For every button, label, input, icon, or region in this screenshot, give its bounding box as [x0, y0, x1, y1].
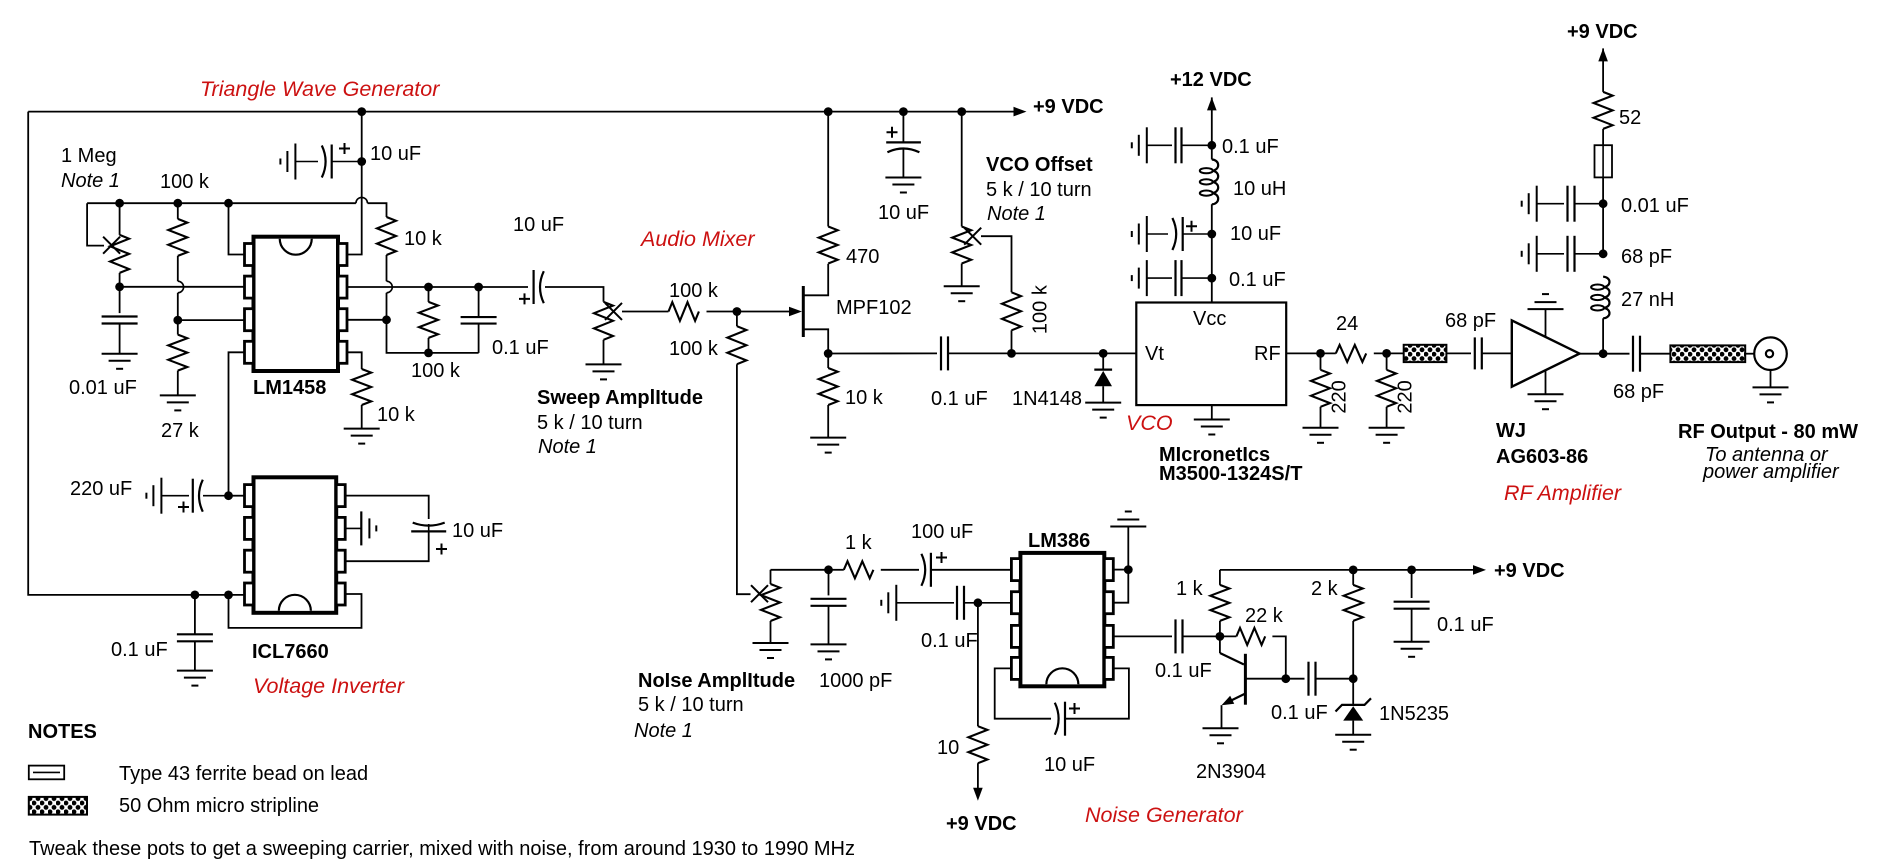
svg-text:0.01 uF: 0.01 uF — [69, 377, 137, 399]
ground below 1N4148 — [1085, 403, 1121, 418]
wire 100 k top lead — [177, 203, 179, 219]
capacitor 0.1 uF (audio coupling) — [941, 336, 948, 370]
capacitor 0.1 uF (noise input) — [881, 585, 896, 621]
potentiometer 1 Meg — [110, 235, 129, 273]
capacitor 0.1 uF (LM386 out) — [1176, 619, 1183, 653]
svg-text:Vt: Vt — [1145, 343, 1164, 365]
wire noise pot to 1k rail — [771, 569, 829, 571]
wire offset wiper — [981, 236, 1012, 292]
capacitor 0.01 uF — [102, 317, 138, 324]
wire lower 10k to ground — [361, 405, 363, 429]
svg-text:22 k: 22 k — [1245, 605, 1284, 627]
capacitor 10 uF (LM1458 V+ bypass) — [280, 144, 295, 180]
wire 0.01 uF top lead — [119, 287, 121, 313]
wire noise pot top — [770, 570, 772, 584]
wire coupling cap to Vt — [948, 352, 1136, 354]
wire 10 k lead below hop — [386, 293, 388, 320]
wire 27nH to output node — [1602, 318, 1604, 353]
resistor 10 k (to ground) — [352, 369, 371, 405]
wire rail to offset pot — [961, 112, 963, 227]
plus sign VCO 10uF — [1186, 221, 1197, 232]
wire ICL 0.1uF bottom — [194, 641, 196, 670]
inductor 27 nH — [1603, 277, 1609, 319]
capacitor 1000 pF — [811, 599, 847, 606]
wire sweep wiper to 100k — [622, 311, 669, 313]
wire ICL loop bottom — [345, 531, 429, 561]
wire 100 k lead below hop — [177, 293, 179, 320]
wire to LM1458 pin 1 — [229, 203, 245, 254]
plus sign sweep cap — [519, 293, 530, 304]
potentiometer VCO Offset 5k — [952, 227, 971, 264]
resistor 2 k — [1344, 585, 1363, 621]
capacitor 0.1 uF (ICL7660) — [177, 634, 213, 641]
svg-text:220 uF: 220 uF — [70, 478, 132, 500]
audio amp LM386 (DIP-8) — [1011, 553, 1113, 686]
svg-text:MPF102: MPF102 — [836, 297, 912, 319]
capacitor 220 uF — [146, 478, 161, 514]
diode 1N4148 — [1094, 369, 1112, 371]
resistor 100 k (noise mix, vertical) — [727, 326, 746, 364]
ground below ICL 0.1uF — [177, 671, 213, 686]
wire pin R3 to 10 k node — [347, 319, 387, 321]
node 1k/1000pF — [824, 565, 833, 574]
wire 22k to base node — [1272, 636, 1285, 678]
ground below sweep pot — [586, 364, 622, 379]
wire 1000pF top lead — [828, 570, 830, 596]
wire 100 k bottom lead with hop — [177, 256, 179, 281]
node attenuator 2 — [1382, 349, 1391, 358]
wire +9V top rail — [28, 111, 1014, 113]
svg-text:100 k: 100 k — [160, 171, 210, 193]
node 100 k parallel top — [424, 283, 433, 292]
transistor 2N3904 — [1244, 654, 1247, 705]
svg-text:100 k: 100 k — [669, 280, 719, 302]
arrowhead +9 VDC bottom — [973, 788, 983, 801]
wire stripline to 68pF — [1446, 352, 1471, 354]
wire 220-1 leads — [1320, 353, 1322, 369]
wire gate node to 100k v — [736, 312, 738, 327]
transistor MPF102 gate bar — [802, 286, 805, 337]
node 100 k parallel bottom — [424, 349, 433, 358]
arrowhead +9 VDC top rail — [1014, 107, 1027, 117]
resistor 22 k — [1236, 628, 1265, 645]
capacitor 100 uF — [921, 554, 925, 586]
echo plates ICL 10uF minus — [360, 511, 362, 545]
wire offset pot bottom — [961, 264, 963, 287]
wiper X of offset pot — [964, 228, 981, 245]
wire 2k bottom — [1352, 621, 1354, 679]
node V+ feed on top rail — [357, 107, 366, 116]
node offset pot feed on top rail — [957, 107, 966, 116]
wire noise bypass top — [1411, 570, 1413, 598]
svg-text:0.1 uF: 0.1 uF — [921, 630, 978, 652]
node 0.1uF bypass top — [1407, 566, 1416, 575]
node 0.1 uF parallel top — [474, 283, 483, 292]
svg-text:AG603-86: AG603-86 — [1496, 446, 1588, 468]
wire sweep cap to pot — [545, 287, 604, 302]
svg-text:Triangle Wave Generator: Triangle Wave Generator — [200, 77, 440, 101]
svg-text:220: 220 — [1394, 380, 1416, 413]
svg-text:10 k: 10 k — [404, 228, 443, 250]
wire offset 100k to Vt node — [1011, 330, 1013, 353]
node VCO bypass 1 — [1207, 141, 1216, 150]
plus sign 220 uF — [178, 502, 189, 513]
hop of 100 k lead over inverting wire — [178, 281, 184, 293]
wire zener bottom lead — [1352, 721, 1354, 735]
wire 220-2 leads — [1386, 353, 1388, 369]
resistor 24 (series) — [1336, 345, 1366, 362]
wire wiper loop of 1 Meg pot — [87, 203, 104, 245]
svg-text:27 k: 27 k — [161, 420, 200, 442]
wiper X of sweep pot — [605, 303, 622, 320]
capacitor 0.1 uF (base-zener) — [1309, 662, 1316, 696]
wire rail to 470 — [827, 112, 829, 227]
wire connector ground stub — [1770, 370, 1772, 387]
node 27 k top — [173, 316, 182, 325]
wire 10k node down — [387, 320, 479, 353]
wiper X of noise pot — [751, 585, 768, 602]
svg-text:5 k / 10 turn: 5 k / 10 turn — [638, 694, 744, 716]
wire 10 k lower lead with hop — [386, 255, 388, 281]
node 100 k top — [173, 199, 182, 208]
ground below 0.01 uF — [102, 354, 138, 369]
svg-text:Vcc: Vcc — [1193, 308, 1226, 330]
ground below 27 k — [160, 395, 196, 410]
svg-text:0.1 uF: 0.1 uF — [1271, 702, 1328, 724]
ground below offset pot — [944, 286, 980, 301]
resistor 470 — [819, 227, 838, 264]
svg-text:+9 VDC: +9 VDC — [1033, 96, 1104, 118]
svg-text:100 k: 100 k — [669, 338, 719, 360]
wire source to coupling cap — [828, 352, 937, 354]
arrowhead 2N3904 emitter — [1222, 696, 1235, 705]
wire amp output — [1580, 353, 1630, 355]
svg-text:RF Output - 80 mW: RF Output - 80 mW — [1678, 421, 1858, 443]
ground below offset bypass — [885, 178, 921, 193]
svg-text:100 k: 100 k — [1030, 284, 1052, 334]
ground above amp — [1528, 294, 1564, 309]
wire below 10uH — [1211, 204, 1213, 302]
wire 1k collector bottom — [1219, 621, 1221, 637]
wire VCO ground stub — [1211, 405, 1213, 419]
node VCO bypass 3 — [1207, 274, 1216, 283]
svg-text:1 Meg: 1 Meg — [61, 145, 117, 167]
ground below 220-2 — [1369, 428, 1405, 443]
svg-text:0.1 uF: 0.1 uF — [1155, 660, 1212, 682]
capacitor 10 uF (offset bypass) — [886, 141, 921, 143]
svg-text:Noise Generator: Noise Generator — [1085, 803, 1244, 827]
node 220uF out — [224, 491, 233, 500]
svg-text:1N4148: 1N4148 — [1012, 388, 1082, 410]
svg-text:1 k: 1 k — [845, 532, 873, 554]
wire 1k left lead — [829, 569, 844, 571]
wire LM386 bypass loop — [995, 668, 1051, 718]
wire 100k to gate node — [707, 311, 791, 313]
resistor 220 (shunt 1) — [1311, 370, 1330, 407]
svg-text:68 pF: 68 pF — [1613, 381, 1664, 403]
wire 68pF to amp — [1482, 352, 1512, 354]
svg-text:52: 52 — [1619, 107, 1641, 129]
ground below noise pot — [753, 643, 789, 658]
plus sign of 10 uF — [339, 143, 350, 154]
transistor MPF102 source lead — [803, 329, 828, 353]
svg-text:Note 1: Note 1 — [538, 436, 597, 458]
svg-text:NOTES: NOTES — [28, 721, 97, 743]
svg-text:27 nH: 27 nH — [1621, 289, 1674, 311]
capacitor 10 uF (ICL7660) — [413, 523, 445, 526]
capacitor 0.1 uF (parallel) — [461, 317, 497, 324]
resistor 10 k (MPF102 source) — [819, 368, 838, 405]
node base/22k — [1281, 674, 1290, 683]
wire feedback rail — [87, 202, 356, 204]
svg-text:10: 10 — [937, 737, 959, 759]
svg-text:68 pF: 68 pF — [1445, 310, 1496, 332]
resistor 1 k (collector) — [1210, 585, 1229, 621]
svg-text:power amplifier: power amplifier — [1702, 461, 1840, 483]
capacitor 10 uF (sweep coupling) — [532, 270, 534, 304]
wire collector stub — [1219, 636, 1221, 653]
ground below MPF102 10 k — [810, 438, 846, 453]
svg-text:10 uH: 10 uH — [1233, 178, 1286, 200]
node ICL gnd left — [191, 591, 200, 600]
wire 0.1uF par top lead — [478, 287, 480, 317]
node zener top — [1349, 674, 1358, 683]
wire 27 k bottom lead — [177, 371, 179, 396]
ground below emitter — [1203, 728, 1239, 743]
svg-text:100 uF: 100 uF — [911, 521, 973, 543]
svg-text:VCO: VCO — [1126, 411, 1173, 435]
node RF bypass 2 — [1599, 249, 1608, 258]
wire output cap to stripline — [1640, 353, 1670, 355]
svg-text:NoIse AmplItude: NoIse AmplItude — [638, 670, 795, 692]
wire cap to zener node — [1316, 678, 1354, 680]
ground below lower 10 k — [344, 429, 380, 444]
svg-text:470: 470 — [846, 246, 879, 268]
wire rail to bypass cap — [902, 112, 904, 142]
wire 27 k top lead — [177, 320, 179, 335]
ground below noise bypass — [1394, 642, 1430, 657]
svg-text:Note 1: Note 1 — [634, 720, 693, 742]
ground below VCO — [1194, 420, 1230, 435]
legend stripline symbol — [29, 797, 87, 815]
capacitor 0.1 uF (VCO bypass 2) — [1132, 260, 1147, 296]
svg-text:0.1 uF: 0.1 uF — [1229, 269, 1286, 291]
wire diode bottom lead — [1102, 386, 1104, 402]
wire second rail right of hop — [368, 203, 387, 217]
wire amp top ground stub — [1545, 309, 1547, 337]
wire sweep pot bottom — [603, 340, 605, 365]
node 470 feed on top rail — [824, 107, 833, 116]
resistor 100 k (sweep mix) — [669, 302, 699, 321]
wire diode top lead — [1102, 353, 1104, 369]
svg-text:Note 1: Note 1 — [987, 203, 1046, 225]
wire VCO RF out — [1286, 352, 1336, 354]
capacitor 68 pF (RF bypass) — [1522, 236, 1537, 272]
inductor 10 uH — [1212, 160, 1218, 205]
wire base net — [1245, 678, 1304, 680]
svg-text:ICL7660: ICL7660 — [252, 641, 329, 663]
node 2k top — [1349, 566, 1358, 575]
wire emitter down — [1221, 705, 1223, 728]
RF output connector — [1754, 337, 1787, 370]
capacitor 0.01 uF (RF bypass) — [1522, 186, 1537, 222]
wire noise pot bottom — [770, 621, 772, 643]
wire ICL 0.1uF top — [194, 595, 196, 634]
svg-text:0.01 uF: 0.01 uF — [1621, 195, 1689, 217]
transistor MPF102 drain lead — [803, 264, 828, 296]
node LM386 ground tie — [1124, 565, 1133, 574]
svg-text:24: 24 — [1336, 313, 1358, 335]
wire LM1458 out A — [347, 286, 528, 288]
svg-text:1000 pF: 1000 pF — [819, 670, 892, 692]
capacitor 10 uF (VCO bypass) — [1132, 216, 1147, 252]
node pin R3 / 10 k — [382, 315, 391, 324]
ground above LM386 — [1110, 512, 1146, 527]
ground below zener — [1335, 735, 1371, 750]
ground below connector — [1753, 387, 1789, 402]
potentiometer Sweep Amplitude 5k — [594, 302, 613, 340]
wire noise +9V rail — [1220, 569, 1478, 571]
wire bypass cap to ground — [902, 150, 904, 178]
resistor 10 k (feedback upper) — [377, 217, 396, 255]
svg-text:LM386: LM386 — [1028, 530, 1090, 552]
wire 100k par top lead — [428, 287, 430, 302]
svg-text:Sweep AmplItude: Sweep AmplItude — [537, 387, 703, 409]
wire 1 Meg bottom lead — [119, 273, 121, 287]
svg-text:0.1 uF: 0.1 uF — [1222, 136, 1279, 158]
node ICL U-loop join — [224, 591, 233, 600]
potentiometer Noise Amplitude 5k — [761, 584, 780, 621]
node offset join — [1007, 349, 1016, 358]
svg-text:RF Amplifier: RF Amplifier — [1504, 481, 1622, 505]
resistor 100 k (triangle gen) — [168, 219, 187, 256]
amplifier WJ AG603-86 (triangle) — [1512, 320, 1580, 386]
wire 10R to arrow — [977, 763, 979, 788]
ground below 220-1 — [1303, 428, 1339, 443]
plus sign LM386 10uF — [1069, 703, 1080, 714]
resistor 10 — [968, 726, 987, 763]
ferrite bead (on lead) — [1595, 145, 1613, 177]
svg-text:10 uF: 10 uF — [513, 214, 564, 236]
wire +12 supply column — [1211, 97, 1213, 159]
wire amp bottom ground stub — [1545, 370, 1547, 394]
wire 52 to bead — [1602, 129, 1604, 145]
wire 1k to 100uF — [881, 569, 919, 571]
wire non-inverting net — [178, 319, 245, 321]
wire source 10k leads — [827, 354, 829, 369]
capacitor 10 uF (LM386 bypass) — [1055, 703, 1059, 735]
svg-text:10 k: 10 k — [845, 387, 884, 409]
resistor 27 k — [168, 335, 187, 371]
microstripline (amp input) — [1404, 345, 1447, 362]
svg-text:220: 220 — [1329, 380, 1351, 413]
plus sign 100 uF — [936, 552, 947, 563]
svg-text:2N3904: 2N3904 — [1196, 761, 1266, 783]
wire ICL pin8 loop — [345, 496, 429, 519]
wire cap to collector node — [1183, 635, 1220, 637]
node 1 Meg top — [115, 199, 124, 208]
node MPF102 source — [824, 349, 833, 358]
svg-text:68 pF: 68 pF — [1621, 246, 1672, 268]
svg-text:+9 VDC: +9 VDC — [1494, 560, 1565, 582]
node pot bottom / 0.01 uF — [115, 282, 124, 291]
wire 22k left — [1220, 635, 1237, 637]
svg-text:5 k / 10 turn: 5 k / 10 turn — [986, 179, 1092, 201]
svg-text:+12 VDC: +12 VDC — [1170, 69, 1252, 91]
svg-text:0.1 uF: 0.1 uF — [931, 388, 988, 410]
svg-text:M3500-1324S/T: M3500-1324S/T — [1159, 463, 1302, 485]
arrowhead +9 VDC noise rail — [1473, 565, 1486, 575]
node RF output join — [1599, 349, 1608, 358]
node noise input join — [974, 598, 983, 607]
svg-text:10 uF: 10 uF — [878, 202, 929, 224]
wire 0.1uF par bottom lead — [478, 324, 480, 353]
svg-text:2 k: 2 k — [1311, 578, 1339, 600]
svg-text:Voltage Inverter: Voltage Inverter — [253, 674, 405, 698]
wiper X of 1 Meg pot — [103, 237, 120, 254]
wire LM386 ground stub — [1127, 527, 1129, 570]
resistor 100 k (offset) — [1002, 292, 1021, 330]
wire 100k par bottom lead — [428, 338, 430, 353]
wire LM1458 V- to ICL7660 — [229, 352, 245, 495]
node 10 uF tap — [357, 157, 366, 166]
wire 220uF node to pin — [229, 495, 245, 497]
ground below amp — [1528, 394, 1564, 409]
wire pin R4 to lower 10k — [347, 352, 362, 369]
wire noise bypass bottom — [1411, 609, 1413, 642]
node RF bypass 1 — [1599, 199, 1608, 208]
resistor 52 — [1594, 92, 1613, 129]
zener diode 1N5235 — [1336, 698, 1372, 711]
svg-text:Audio Mixer: Audio Mixer — [639, 227, 755, 251]
node VCO bypass 2 — [1207, 230, 1216, 239]
node pin1 feed — [224, 199, 233, 208]
wire bead to 0.01uF node — [1602, 177, 1604, 253]
svg-text:0.1 uF: 0.1 uF — [1437, 614, 1494, 636]
wire noise join down to 10R — [977, 603, 979, 726]
svg-text:10 uF: 10 uF — [1044, 754, 1095, 776]
svg-text:WJ: WJ — [1496, 420, 1526, 442]
wire +9V to LM1458 V+ pin — [347, 112, 362, 255]
wire zener top lead — [1352, 679, 1354, 705]
wire LM386 pins 5-6 tie — [1113, 569, 1128, 571]
wire 1 Meg top lead — [119, 203, 121, 235]
plus sign ICL 10uF — [436, 544, 447, 555]
op-amp LM1458 (DIP-8) — [245, 237, 348, 371]
ground below 1000 pF — [811, 644, 847, 659]
wire 0.01 uF bottom lead — [119, 324, 121, 354]
hop of 10k lead over output wire — [387, 281, 393, 293]
svg-text:5 k / 10 turn: 5 k / 10 turn — [537, 412, 643, 434]
node 2N3904 collector — [1216, 632, 1225, 641]
wire stripline to connector — [1745, 353, 1754, 355]
svg-text:Type 43 ferrite bead on lead: Type 43 ferrite bead on lead — [119, 763, 368, 785]
wire 1000pF bottom lead — [828, 606, 830, 645]
legend ferrite bead symbol — [29, 766, 64, 780]
wire ICL U-loop — [229, 594, 362, 628]
hop of second rail over V+ wire — [356, 197, 368, 203]
arrowhead MPF102 gate — [789, 307, 802, 317]
microstripline (output) — [1670, 345, 1745, 362]
svg-text:10 uF: 10 uF — [452, 520, 503, 542]
wire 100uF to LM386 pin — [931, 569, 1011, 571]
node mixer gate — [733, 307, 742, 316]
wire 24 to stripline — [1374, 352, 1404, 354]
svg-text:10 uF: 10 uF — [1230, 223, 1281, 245]
svg-text:+9 VDC: +9 VDC — [946, 813, 1017, 835]
svg-text:10 k: 10 k — [377, 404, 416, 426]
svg-text:Note 1: Note 1 — [61, 170, 120, 192]
